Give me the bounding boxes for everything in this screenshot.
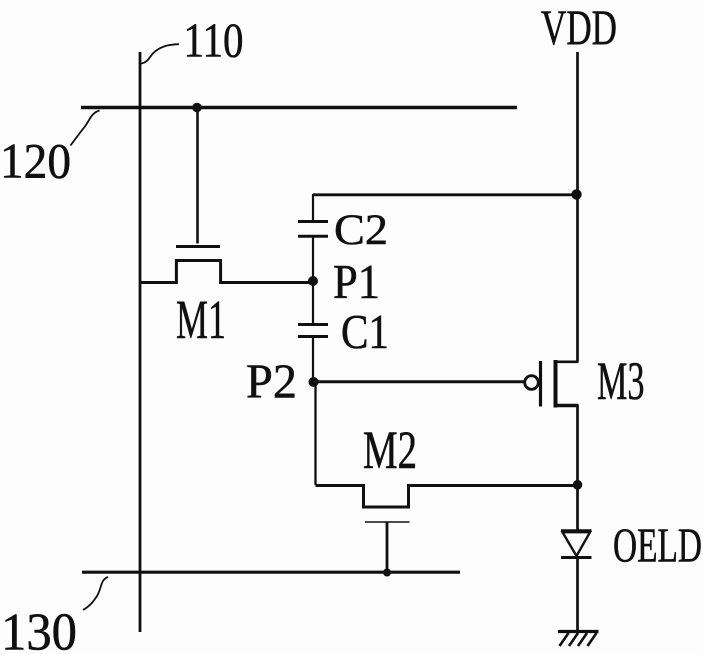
svg-text:C2: C2 [334, 206, 388, 254]
svg-text:120: 120 [0, 134, 71, 189]
svg-text:P2: P2 [246, 354, 297, 409]
svg-text:OELD: OELD [613, 518, 702, 573]
svg-text:C1: C1 [341, 306, 389, 359]
svg-text:M1: M1 [176, 289, 226, 350]
svg-text:M3: M3 [597, 351, 645, 411]
svg-text:M2: M2 [363, 420, 417, 480]
svg-text:P1: P1 [333, 256, 380, 309]
svg-text:VDD: VDD [541, 0, 617, 55]
svg-text:130: 130 [1, 604, 77, 654]
svg-text:110: 110 [184, 13, 244, 68]
